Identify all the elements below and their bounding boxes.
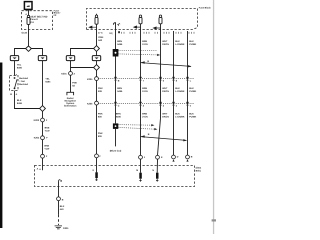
svg-text:9496: 9496 [117,43,123,46]
svg-text:9496: 9496 [116,116,122,119]
row1 crossing at x115.5 [114,77,117,81]
svg-text:(Seat: (Seat [196,167,202,170]
svg-text:DKGN: DKGN [162,90,169,93]
svg-text:G301: G301 [63,227,69,230]
svg-text:9496: 9496 [17,102,23,105]
wire into module pin D [96,158,98,173]
row2 crossing at x115.5 [114,102,117,106]
svg-text:WHT: WHT [162,113,168,116]
fuse F3 feed arrow [134,26,141,28]
body control module dashed box [35,166,195,187]
W3 lower connector circle [156,155,160,159]
wire stub above fuse F2 [96,14,98,15]
svg-text:PNK: PNK [72,82,77,85]
svg-text:K205: K205 [87,78,93,81]
wire label YEL 9496 [17,63,23,69]
svg-text:BNE: BNE [44,145,49,148]
ground symbol G301 [55,226,62,229]
splice pack 1 leader 2 [119,54,161,56]
splice S1 diamond [26,46,32,51]
module ground pin lead [58,181,60,197]
svg-text:BLK: BLK [60,205,65,208]
svg-text:L-GN/BK: L-GN/BK [175,116,185,119]
W2 wire [140,24,142,156]
power icon box [24,2,32,10]
svg-text:BRN: BRN [117,40,122,43]
W5 label a [189,40,196,46]
module pin D tip [95,178,97,181]
wire S1 right branch [31,49,42,56]
svg-text:Belt): Belt) [196,170,201,173]
splice S4 diamond [94,65,100,71]
switch state note [19,77,28,86]
W4 end arrow [172,159,174,161]
W1 label a [117,40,123,46]
W3 module pin terminal [156,173,159,179]
W1 label c [116,113,122,119]
svg-text:BLK: BLK [175,87,180,90]
svg-text:BRN: BRN [142,40,147,43]
in-line connector K205 [95,77,99,81]
row2 crossing at x140.5 [139,102,142,106]
svg-text:G140: G140 [21,32,27,35]
svg-text:BLK: BLK [189,40,194,43]
connector row1 dotted line [99,78,195,80]
fuse F4 feed arrow [153,27,160,29]
wire S4 down [96,70,98,76]
svg-text:SEAT BELT IND: SEAT BELT IND [30,15,47,18]
IP fuse block dashed box [87,9,198,30]
wire switch to splice S2 [15,91,41,109]
W2 module pin terminal [139,173,142,179]
svg-text:K204: K204 [34,137,40,140]
wire label PNK 939 c [98,132,103,138]
svg-text:PNK: PNK [98,132,103,135]
svg-text:WHT: WHT [162,40,168,43]
W5 label c [189,113,196,119]
module pin D terminal [95,172,98,178]
fuse block dashed box left [22,11,53,30]
svg-text:I/P: I/P [54,14,57,17]
W4 label a [175,40,185,46]
svg-text:BNE: BNE [45,127,50,130]
wire C1 to switch [14,61,16,76]
wire K204 down [42,140,44,155]
wire S3 left branch [71,49,94,56]
W1 wire mid [115,57,117,124]
svg-text:10|: 10| [109,32,113,35]
fuse F1 value label [30,15,47,24]
W1 label b [117,87,123,93]
svg-text:PU/BK: PU/BK [189,116,196,119]
splice pack 2 leader 2 [119,127,158,130]
svg-text:BLK: BLK [175,40,180,43]
svg-text:K201: K201 [61,72,67,75]
svg-text:= Not: = Not [19,80,25,83]
wire label PNK 93 [72,82,77,88]
svg-text:YEL: YEL [17,63,22,66]
svg-text:L-GN/BK: L-GN/BK [175,43,185,46]
svg-text:PNK: PNK [98,87,103,90]
svg-text:YEL: YEL [45,77,50,80]
in-line connector K204 [41,136,45,140]
svg-text:M: M [136,169,138,172]
module label [196,167,202,173]
svg-text:BLK: BLK [189,113,194,116]
ground pin top hook [59,180,62,182]
W1 wire upper [115,23,117,49]
fuse F2 feed arrow [89,26,96,28]
W4 end connector circle [172,155,176,159]
wire K205 to K206 [96,81,98,102]
wire K201 to radio [70,75,72,92]
branch arrow B lower [141,135,187,141]
fuse block name label [54,9,62,17]
W3 wire into module [156,159,158,173]
svg-text:2-GN: 2-GN [142,90,148,93]
wire label ORN 940 [98,36,103,42]
W5 end connector circle [186,155,190,159]
row2 crossing at x160.5 [159,102,162,106]
wire label BNE YLW upper [45,127,51,133]
wire S1 left branch [15,49,26,56]
svg-text:Schematics: Schematics [64,105,77,108]
svg-text:ORN: ORN [98,36,103,39]
svg-text:9496: 9496 [117,90,123,93]
fuse F1 [27,15,30,24]
W3 label a [162,40,169,46]
svg-text:BRN: BRN [117,87,122,90]
wire C3 through junction [70,61,72,72]
W5 end arrow [186,159,188,161]
wire label BLK 9496 [17,99,23,105]
W5 wire [187,31,189,155]
ground wire label BLK 450 [60,205,65,211]
branch arrow B upper [141,61,192,67]
W1 splice pack box 1 [113,49,119,57]
svg-text:(Blunt Cut): (Blunt Cut) [110,149,122,152]
in-line connector left lower [41,154,45,158]
wire into module pin A [42,158,44,170]
W2 label b [142,87,148,93]
W2 label a [142,40,148,46]
right page border line [213,0,214,234]
connector C3 [66,56,74,61]
fuse F3 [139,15,142,24]
right page border tick [212,219,216,221]
svg-text:Fuse Block: Fuse Block [199,6,212,9]
W1 splice pack box 2 [113,123,118,128]
row1 crossing at x187.5 [186,77,189,81]
svg-text:BLK: BLK [175,113,180,116]
W2 module pin tip [139,179,141,182]
ground lead connector circle [57,197,61,201]
svg-text:PNK: PNK [98,113,103,116]
wire label PNK 939 b [98,113,103,119]
row2 crossing at x187.5 [186,102,189,106]
W3 label c [162,113,169,119]
wire W1 hook [113,23,115,25]
wire S2 to K203 [42,111,44,118]
left page border bar [0,63,2,229]
svg-text:BRN: BRN [116,113,121,116]
W3 label b [162,87,169,93]
svg-text:Buckled: Buckled [19,77,28,80]
W2 wire into module [140,159,142,173]
W1 wire to blunt cut [115,129,117,147]
svg-text:17 A: 17 A [98,32,103,35]
connector row2 dotted line [99,103,195,105]
svg-text:2-GN: 2-GN [142,116,148,119]
W2 lower connector circle [139,155,143,159]
W5 label b [189,87,196,93]
wire K203 to K204 [42,122,44,136]
W4 wire [173,31,175,155]
wire icon to fuse F1 [28,10,30,16]
in-line connector K206 [95,101,99,105]
in-line connector mid lower [95,154,99,158]
svg-text:2-GN: 2-GN [142,43,148,46]
svg-text:BLK: BLK [189,87,194,90]
ground wire dashed continuation [58,215,60,225]
wire label YEL 9495 [45,77,51,83]
W2 label c [142,113,148,119]
seat belt switch dashed box [10,76,19,91]
wire K206 down [96,105,98,154]
svg-text:Buckled: Buckled [19,83,28,86]
wire C2 to splice S2 [42,61,44,106]
wire F2 to splice S3 [96,24,98,46]
svg-text:DKGN: DKGN [162,43,169,46]
svg-text:L-GN/BK: L-GN/BK [175,90,185,93]
svg-text:BRN: BRN [142,113,147,116]
in-line connector K203 [41,118,45,122]
wire label BNE YLW lower [44,145,50,151]
svg-text:K206: K206 [87,102,93,105]
W3 wire [158,24,161,156]
seat belt switch [14,77,17,89]
wire label PNK 939 a [98,87,103,93]
svg-text:PU/BK: PU/BK [189,43,196,46]
W1 hook arrow [117,23,120,26]
splice S3 diamond [94,46,100,52]
connector C1 [10,56,18,61]
row1 crossing at x140.5 [139,77,142,81]
wire S3 down [96,51,98,55]
splice pack 2 leader 1 [119,124,155,126]
svg-text:BLK: BLK [17,99,22,102]
svg-text:Fuse 8: Fuse 8 [30,18,38,21]
row1 crossing at x160.5 [159,77,162,81]
svg-text:BRN: BRN [142,87,147,90]
svg-text:9495: 9495 [45,80,51,83]
in-line connector K201 [69,72,73,76]
radio reference text [64,97,77,108]
W1 pin dot [118,31,120,33]
fuse F4 [159,15,162,24]
connector C2 [38,56,46,61]
pin tick comb under fuse block [119,32,194,34]
svg-text:9496: 9496 [17,66,23,69]
svg-text:WHT: WHT [162,87,168,90]
wire F1 to splice S1 [28,24,30,46]
W4 label b [175,87,185,93]
radio off-page bracket [67,92,74,95]
W4 label c [175,113,185,119]
W3 module pin tip [156,179,158,182]
row1 crossing at x173.5 [172,77,175,81]
svg-text:2 A: 2 A [30,21,34,24]
fuse F2 [95,15,98,24]
svg-text:K203: K203 [34,119,40,122]
splice pack 1 leader 1 [119,49,157,51]
splice S2 diamond [40,106,46,112]
ground wire solid [58,201,60,215]
svg-text:PU/BK: PU/BK [189,90,196,93]
svg-text:DKGN: DKGN [162,116,169,119]
connector C4 [92,56,100,61]
wire C4 to splice S4 [96,61,98,65]
wire S4 left branch [71,67,94,69]
row2 crossing at x173.5 [172,102,175,106]
